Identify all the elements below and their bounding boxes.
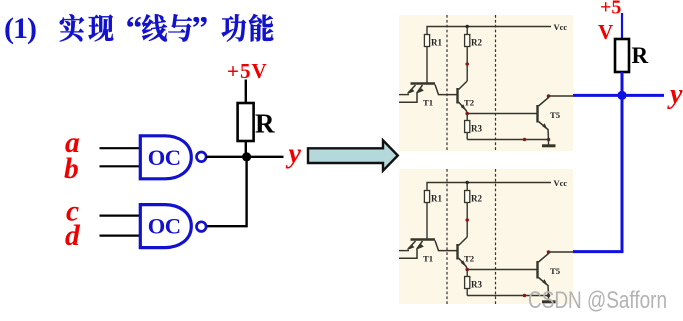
- svg-text:+5: +5: [600, 0, 621, 19]
- NAND gate G2 (OC): [140, 205, 191, 248]
- blue junction dot: [617, 91, 626, 100]
- blue wire to bottom block: [573, 250, 624, 253]
- transistor T1 (bottom block): [411, 238, 436, 241]
- bottom rail (top block): [467, 139, 548, 141]
- output bubble G2: [197, 222, 207, 232]
- Vcc rail (bottom block): [427, 183, 551, 240]
- svg-text:(1): (1): [4, 12, 36, 45]
- resistor R2 (top block): [466, 27, 468, 82]
- blue horizontal wire top block to y: [573, 94, 664, 97]
- svg-text:R2: R2: [471, 194, 482, 204]
- svg-text:V: V: [598, 20, 613, 44]
- dashed divider 2 (top block): [495, 15, 497, 151]
- svg-text:R: R: [255, 109, 275, 139]
- svg-text:T2: T2: [464, 254, 474, 264]
- junction dot: [242, 152, 251, 161]
- wire input a: [100, 147, 140, 149]
- resistor R (left): [238, 103, 254, 141]
- svg-text:OC: OC: [148, 214, 181, 239]
- svg-text:T5: T5: [550, 110, 561, 120]
- wire node to T5 base (bottom block): [467, 269, 537, 271]
- svg-text:R3: R3: [471, 280, 482, 290]
- svg-text:OC: OC: [148, 145, 181, 170]
- T2 emitter node dot (bottom block): [465, 268, 469, 272]
- svg-text:R2: R2: [471, 38, 482, 48]
- resistor R1 (top block): [424, 35, 429, 47]
- svg-text:R: R: [632, 43, 649, 68]
- bottom rail (bottom block): [467, 295, 548, 297]
- svg-text:T1: T1: [423, 98, 433, 108]
- bottom rail dots (bottom block): [523, 294, 527, 298]
- ground (top block): [548, 140, 550, 145]
- ground (bottom block): [548, 296, 550, 301]
- NAND gate G1 (OC): [140, 136, 191, 179]
- transistor T2 (top block): [456, 88, 458, 104]
- T5 collector node dot (top block): [547, 94, 551, 98]
- svg-text:CSDN @Safforn: CSDN @Safforn: [528, 287, 667, 314]
- svg-text:d: d: [65, 220, 81, 252]
- resistor R (right): [615, 39, 629, 72]
- dashed divider 1 (top block): [446, 15, 448, 151]
- node dot below R2 (bottom block): [465, 218, 469, 222]
- transistor T5 (bottom block): [536, 261, 538, 279]
- dashed divider 1 (bottom block): [446, 169, 448, 304]
- resistor R1 (bottom block): [424, 191, 429, 203]
- wire resistor to junction: [245, 141, 247, 158]
- resistor R3 (bottom block): [466, 270, 468, 296]
- blue wire +5 to resistor R: [621, 13, 623, 40]
- dashed divider 2 (bottom block): [495, 169, 497, 304]
- block arrow: [308, 140, 398, 170]
- svg-text:R3: R3: [471, 124, 482, 134]
- rail junction dot (bottom block): [466, 181, 469, 184]
- transistor T5 (top block): [536, 105, 538, 123]
- svg-text:Vcc: Vcc: [554, 22, 568, 32]
- wire T5 collector to panel edge (top block): [549, 95, 574, 97]
- cream panel (top block): [399, 15, 573, 151]
- bottom rail dots (top block): [523, 138, 527, 142]
- resistor R3 (top block): [466, 114, 468, 140]
- T2 emitter node dot (top block): [465, 112, 469, 116]
- output bubble G1: [197, 152, 207, 162]
- svg-text:R1: R1: [431, 194, 442, 204]
- transistor T2 (bottom block): [456, 244, 458, 260]
- resistor R2 (bottom block): [466, 183, 468, 238]
- wire node to T5 base (top block): [467, 113, 537, 115]
- T5 collector node dot (bottom block): [547, 250, 551, 254]
- wire input c: [100, 215, 140, 217]
- wire +5V to resistor: [245, 80, 247, 104]
- Vcc rail (top block): [427, 27, 551, 84]
- svg-text:b: b: [64, 153, 79, 185]
- svg-text:T5: T5: [550, 266, 561, 276]
- node dot below R2 (top block): [465, 62, 469, 66]
- cream panel (bottom block): [399, 169, 573, 304]
- blue vertical wire: [621, 72, 624, 252]
- svg-text:T2: T2: [464, 98, 474, 108]
- wire junction down to G2 output: [207, 157, 247, 226]
- wire T5 collector to panel edge (bottom block): [549, 251, 574, 253]
- transistor T1 (top block): [411, 82, 436, 85]
- rail junction dot (top block): [466, 25, 469, 28]
- svg-text:Vcc: Vcc: [554, 178, 568, 188]
- wire input b: [100, 165, 140, 167]
- svg-text:T1: T1: [423, 254, 433, 264]
- svg-text:+5V: +5V: [227, 59, 268, 83]
- wire input d: [100, 235, 140, 237]
- wire G1 output to y: [206, 156, 284, 158]
- svg-text:y: y: [286, 139, 302, 170]
- svg-text:R1: R1: [431, 38, 442, 48]
- svg-text:y: y: [667, 79, 683, 110]
